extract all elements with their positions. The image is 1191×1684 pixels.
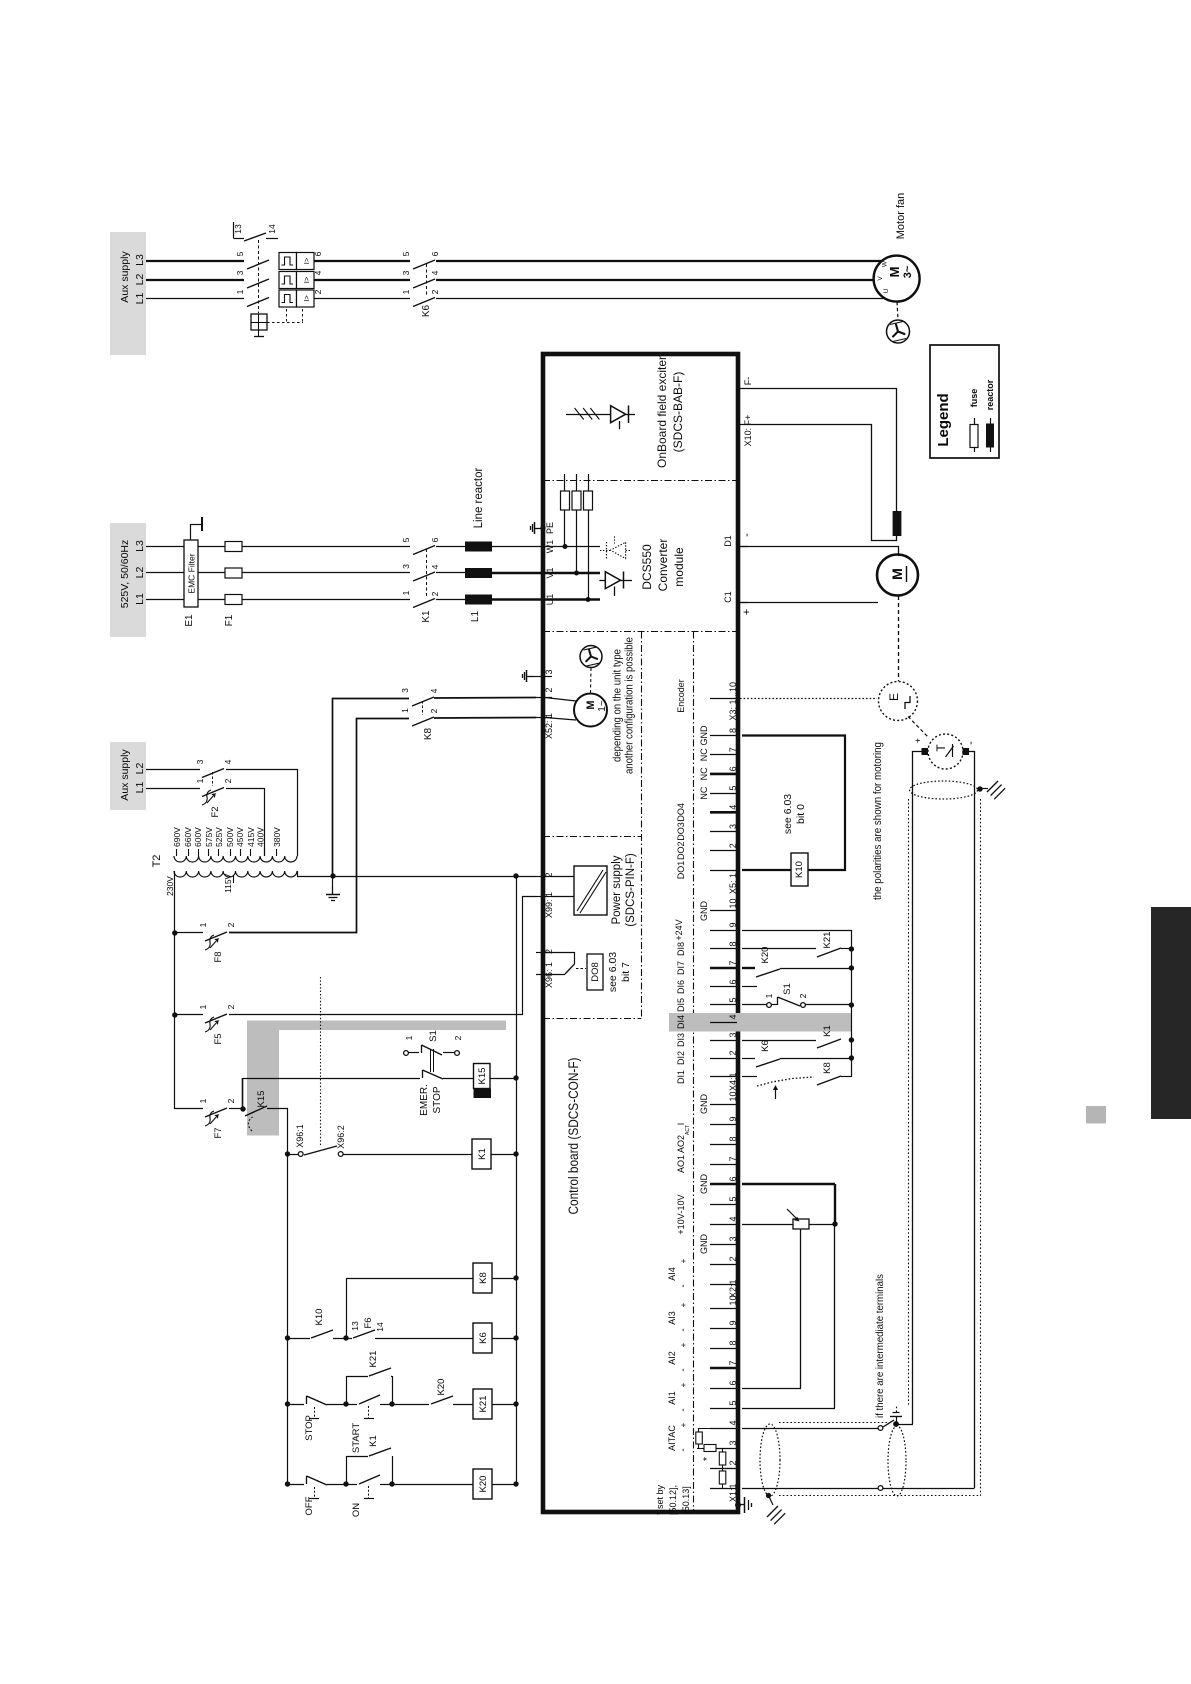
junction dot F7 output (229, 1106, 246, 1111)
PE junction dot on converter edge (540, 525, 545, 530)
wire F2 L1 to 400V tap (226, 789, 265, 857)
svg-text:K6: K6 (760, 1040, 771, 1052)
gray highlight estop horizontal (247, 1021, 506, 1031)
svg-text:(SDCS-BAB-F): (SDCS-BAB-F) (671, 372, 685, 453)
wires EMC to F1 (198, 547, 225, 600)
K8 pole link dashed (422, 701, 424, 715)
svg-text:X52: 1: X52: 1 (544, 713, 554, 739)
svg-text:3: 3 (401, 564, 411, 569)
fuse switch F2 symbol+label (202, 790, 211, 805)
svg-text:7: 7 (728, 960, 738, 965)
F7 symbol+label (205, 1111, 214, 1126)
junction dot after STOP (343, 1401, 348, 1406)
fuse switch F2 pole L2 (202, 769, 224, 778)
wire DI6 stub (742, 986, 757, 988)
fan shaft dashed (897, 302, 898, 320)
svg-text:3~: 3~ (902, 265, 914, 278)
contactor K6 pole L3 (413, 260, 435, 269)
svg-text:I>: I> (302, 257, 311, 264)
svg-text:START: START (351, 1423, 362, 1453)
svg-text:K10: K10 (314, 1309, 325, 1326)
wire X1:4 AITAC+ external (742, 1428, 878, 1430)
tacho - wire down (969, 752, 975, 1489)
contactor K1 pole L2 (413, 572, 435, 581)
svg-text:3: 3 (401, 270, 411, 275)
gray highlight DI4 row (669, 1013, 851, 1032)
X4 pin number labels (728, 898, 738, 1091)
relay K1 coil (472, 1139, 491, 1169)
dotted link DO8 to external contact (320, 977, 322, 1147)
wire GND down to AI1- (742, 1224, 835, 1409)
svg-text:I: I (676, 1123, 686, 1126)
riser 0V to K8 (333, 699, 410, 877)
contactor K8 pole 1-2 (412, 717, 434, 726)
wire L3 breaker to K6 (314, 260, 410, 262)
wire aux L3 to breaker (146, 260, 244, 262)
svg-text:2: 2 (453, 1035, 463, 1040)
svg-text:+: + (741, 609, 753, 615)
K6 pin labels (401, 251, 440, 294)
svg-text:AI3: AI3 (667, 1311, 677, 1325)
wire mains L1 to EMC (146, 599, 184, 601)
wire K1 coil to rail (491, 1154, 516, 1156)
tacho + wire down (913, 752, 922, 1425)
svg-text:see 6.03: see 6.03 (782, 794, 794, 834)
svg-text:6: 6 (728, 1380, 738, 1385)
svg-text:DI8: DI8 (676, 942, 686, 956)
svg-text:6: 6 (728, 979, 738, 984)
svg-text:M: M (889, 568, 905, 580)
svg-text:I>: I> (302, 276, 311, 283)
svg-text:PE: PE (545, 522, 555, 534)
svg-text:1: 1 (235, 289, 245, 294)
svg-text:DCS550: DCS550 (640, 544, 654, 590)
pushbutton OFF (288, 1476, 345, 1499)
junction DI5 rail (849, 1002, 854, 1007)
svg-text:14: 14 (267, 224, 277, 234)
svg-text:F5: F5 (213, 1033, 224, 1044)
labels U1 V1 W1 PE (545, 522, 555, 605)
svg-text:L2: L2 (134, 274, 146, 286)
svg-text:DI4: DI4 (676, 1015, 686, 1029)
fuse F1 L1 (225, 595, 242, 605)
gray band Aux supply (top) (110, 232, 146, 355)
riser to emergency stop chain (242, 1078, 244, 1109)
fan impeller symbol (887, 320, 910, 343)
svg-text:-: - (965, 741, 977, 745)
svg-text:10: 10 (728, 1091, 738, 1101)
svg-text:EMC Filter: EMC Filter (187, 553, 197, 593)
svg-text:600V: 600V (193, 827, 203, 847)
Legend box (930, 345, 999, 458)
K8 pin labels (400, 688, 439, 714)
wire DI1 row (742, 1076, 757, 1078)
svg-text:AI2: AI2 (667, 1351, 677, 1365)
terminal block X4 ticks (710, 911, 737, 1077)
transformer T2 primary winding (174, 856, 297, 862)
svg-text:E: E (887, 693, 901, 701)
svg-text:S1: S1 (782, 983, 793, 995)
wire K15 contact to X96:1 (267, 1109, 288, 1155)
svg-text:C1: C1 (723, 591, 733, 603)
junction dot fuse-V1 (574, 571, 579, 576)
svg-text:415V: 415V (246, 827, 256, 847)
svg-text:DO1: DO1 (676, 861, 686, 880)
contactor K1 pole L3 (413, 546, 435, 555)
svg-text:bit 7: bit 7 (620, 962, 632, 982)
svg-text:DI5: DI5 (676, 998, 686, 1012)
svg-text:525V, 50/60Hz: 525V, 50/60Hz (119, 540, 131, 609)
wire K8 to X52:1 (434, 717, 536, 720)
black page marker bar (1151, 907, 1191, 1119)
svg-text:-: - (678, 1448, 689, 1451)
svg-text:(SDCS-PIN-F): (SDCS-PIN-F) (625, 853, 637, 927)
svg-text:2: 2 (544, 687, 554, 692)
wire F6 to K6 coil (375, 1338, 473, 1340)
terminal X52 ticks (536, 677, 552, 718)
contactor K6 pole L1 (413, 298, 435, 307)
contact K20 in K21 chain (392, 1396, 473, 1405)
svg-text:7: 7 (728, 1360, 738, 1365)
svg-text:Power supply: Power supply (611, 855, 623, 924)
labels X52 pins (544, 669, 554, 739)
svg-text:+: + (679, 1422, 688, 1427)
junction dot K21 rail (513, 1401, 518, 1406)
fuse switch F5 (175, 1004, 236, 1023)
svg-text:6: 6 (430, 251, 440, 256)
fuse switch F7 (175, 1098, 236, 1117)
svg-text:L1: L1 (470, 611, 481, 623)
label L1 L2 L3 mains (134, 540, 146, 605)
gray band Aux supply (middle) (110, 742, 146, 810)
section divider DO8 bottom (543, 1018, 641, 1020)
svg-text:4: 4 (223, 759, 233, 764)
svg-text:NC: NC (699, 748, 709, 761)
wires F1 to K1 (242, 547, 410, 600)
X1 signal names (667, 1302, 689, 1451)
self-hold contact K21 (346, 1368, 393, 1404)
wire DI8 row (742, 948, 816, 950)
svg-text:+: + (679, 1342, 688, 1347)
fuse F1 L2 (225, 568, 242, 578)
breaker F6 pole L3 (247, 260, 269, 269)
converter thyristor symbol dashed (reversing) (600, 536, 630, 558)
svg-text:I>: I> (302, 295, 311, 302)
svg-text:NC: NC (699, 786, 709, 799)
svg-text:F8: F8 (213, 951, 224, 962)
svg-text:5: 5 (728, 1196, 738, 1201)
relay K21 coil (473, 1389, 492, 1419)
field winding reactor (893, 511, 902, 536)
pushbutton ON (346, 1475, 390, 1499)
wire +10V to potentiometer (742, 1224, 793, 1226)
svg-text:K8: K8 (822, 1062, 833, 1074)
internal fan M 1~ (545, 694, 608, 727)
junction dot fuse-W1 (563, 544, 568, 549)
junction dot K6 chain left (285, 1335, 290, 1340)
svg-text:Converter: Converter (656, 539, 670, 592)
wire K20 coil to rail (492, 1484, 516, 1486)
power supply converter box (552, 866, 607, 915)
svg-text:3: 3 (235, 270, 245, 275)
wire X96:2 to K1 coil (343, 1154, 472, 1156)
X2 pin number labels (728, 1091, 738, 1298)
svg-text:another configuration is possi: another configuration is possible (624, 637, 636, 774)
svg-text:K6: K6 (421, 304, 432, 317)
svg-text:K1: K1 (477, 1148, 488, 1160)
svg-text:DI2: DI2 (676, 1051, 686, 1065)
svg-text:STOP: STOP (432, 1086, 443, 1113)
label set by 50.12 50.13 (655, 1484, 691, 1515)
svg-text:F7: F7 (213, 1127, 224, 1138)
svg-text:NC: NC (699, 767, 709, 780)
svg-text:3: 3 (728, 1236, 738, 1241)
svg-text:AI4: AI4 (667, 1267, 677, 1281)
contact K20 to DI7 (756, 969, 780, 977)
svg-text:1: 1 (401, 590, 411, 595)
svg-text:2: 2 (728, 1256, 738, 1261)
svg-text:GND: GND (699, 901, 709, 922)
fuse F1 L3 (225, 542, 242, 552)
svg-text:8: 8 (728, 728, 738, 733)
internal fan shaft dashed (590, 668, 593, 693)
svg-text:X5: 1: X5: 1 (728, 873, 738, 894)
labels X10: F+ and F- (743, 377, 753, 447)
K6 pole linkage dashed (426, 264, 428, 296)
svg-text:5: 5 (401, 537, 411, 542)
svg-text:4: 4 (430, 270, 440, 275)
labels X99 pins (544, 872, 554, 918)
svg-text:bit 0: bit 0 (795, 804, 807, 824)
labels X96 pins (544, 949, 554, 988)
fuse switch F8 (175, 922, 236, 941)
wire K21 coil to rail (492, 1404, 516, 1406)
pushbutton STOP (288, 1396, 345, 1419)
wire pot wiper to AI1+ (742, 1229, 801, 1389)
svg-text:2: 2 (429, 708, 439, 713)
T2 secondary left end to 230V rail (174, 871, 176, 876)
coil return rail (516, 876, 518, 1484)
wire D1 to motor (739, 547, 899, 557)
transformer earth (326, 876, 340, 901)
svg-text:X96:1: X96:1 (295, 1124, 305, 1148)
tacho T circle dotted (928, 734, 963, 769)
svg-text:2: 2 (544, 949, 554, 954)
junction DI2 rail (849, 1055, 854, 1060)
wire K8 coil feed (347, 1279, 474, 1339)
svg-text:9: 9 (728, 1116, 738, 1121)
contactor K6 pole L2 (413, 279, 435, 288)
label depending on the unit type (612, 637, 636, 774)
svg-text:F-: F- (743, 377, 753, 386)
svg-text:2: 2 (226, 922, 236, 927)
internal fuse V1 branch (572, 474, 581, 573)
DO8 coil box (587, 954, 603, 990)
motor shaft dashed to encoder (898, 596, 900, 681)
label DCS550 Converter module (640, 539, 686, 592)
svg-text:L3: L3 (134, 540, 146, 552)
svg-text:DO2: DO2 (676, 841, 686, 860)
wire to K10 contact (288, 1338, 311, 1340)
svg-text:K1: K1 (421, 610, 432, 623)
wire K8 coil to rail (492, 1278, 516, 1280)
svg-text:+24V: +24V (674, 919, 684, 940)
svg-text:DO4: DO4 (676, 803, 686, 822)
svg-text:2: 2 (728, 1050, 738, 1055)
svg-text:5: 5 (235, 251, 245, 256)
svg-text:L1: L1 (134, 593, 146, 605)
DO8 relay contact internal (545, 952, 586, 975)
junction dot STOP chain (285, 1401, 290, 1406)
svg-text:14: 14 (375, 1322, 385, 1332)
svg-text:3: 3 (400, 688, 410, 693)
wire C1 to motor (739, 602, 878, 604)
svg-text:1: 1 (404, 1035, 414, 1040)
svg-text:X99: 1: X99: 1 (544, 892, 554, 918)
svg-text:X96:2: X96:2 (336, 1125, 346, 1149)
wire S1 to rail (805, 1004, 851, 1006)
svg-text:OnBoard field exciter: OnBoard field exciter (655, 356, 669, 468)
legend reactor symbol (986, 418, 994, 452)
labels D1 C1 + - (723, 533, 753, 615)
svg-text:230V: 230V (165, 876, 175, 896)
svg-text:7: 7 (728, 747, 738, 752)
junction dot F5 (172, 1012, 177, 1017)
self-hold contact K1 (346, 1448, 393, 1484)
terminal block X5 ticks (710, 736, 737, 871)
wire aux2 L1 to F2 (146, 788, 200, 790)
wire V1 reactor to converter (492, 572, 543, 574)
svg-text:660V: 660V (183, 827, 193, 847)
label Power supply (SDCS-PIN-F) (611, 853, 637, 927)
svg-text:D1: D1 (723, 535, 733, 547)
internal fuse W1 branch (561, 474, 570, 547)
S1 emergency stop pole 2 (423, 1070, 474, 1079)
svg-text:AI1: AI1 (667, 1391, 677, 1405)
wire L2 breaker to K6 (314, 279, 410, 281)
svg-text:DI7: DI7 (676, 961, 686, 975)
relay K20 coil (473, 1469, 492, 1499)
svg-text:3: 3 (544, 669, 554, 674)
svg-text:X2:1: X2:1 (728, 1279, 738, 1298)
svg-text:+10V: +10V (676, 1213, 686, 1234)
terminal circle X96:1 (290, 1152, 303, 1157)
contact K10 (311, 1330, 333, 1338)
svg-text:2: 2 (728, 1460, 738, 1465)
wire aux L1 to breaker (146, 298, 244, 300)
svg-text:690V: 690V (172, 827, 182, 847)
legend fuse symbol (970, 418, 978, 452)
relay K10 coil loop DO1-GND (742, 736, 845, 871)
S1 pin labels (404, 1030, 463, 1042)
svg-text:Motor fan: Motor fan (895, 193, 907, 239)
wire K8 to X52:2 (434, 697, 536, 700)
svg-text:6: 6 (430, 537, 440, 542)
junction dot K6 rail (513, 1335, 518, 1340)
terminal X96 ticks (536, 953, 552, 975)
junction dot after OFF (343, 1481, 348, 1486)
svg-text:W: W (882, 260, 889, 267)
wire F2 L2 to transformer end (226, 770, 298, 857)
svg-text:-: - (678, 1284, 689, 1287)
shaft dashed E to T (908, 717, 929, 739)
svg-text:K21: K21 (478, 1396, 489, 1413)
screen entry chassis ground (767, 1496, 785, 1525)
screen junction dot (977, 786, 982, 791)
K1 pole linkage dashed (426, 549, 428, 597)
svg-text:6: 6 (728, 766, 738, 771)
wire F8 to K8 (229, 719, 409, 933)
S1 mechanical link (431, 1049, 434, 1072)
svg-text:the polarities are shown for m: the polarities are shown for motoring (872, 742, 884, 900)
switch S1 contact to DI5 (767, 997, 806, 1007)
label L1 L2 aux middle (134, 763, 146, 794)
svg-text:1: 1 (400, 708, 410, 713)
X1:1 corner earth (738, 1497, 752, 1513)
wire U1 reactor to converter (492, 598, 543, 600)
wire DI7 to rail (780, 968, 851, 970)
T2 primary tap ticks (177, 849, 277, 856)
intermediate terminal circle X1:1 (878, 1486, 883, 1491)
junction dot K1 rail (513, 1151, 518, 1156)
svg-text:1: 1 (198, 922, 208, 927)
svg-text:M: M (585, 700, 597, 709)
wire to K20 coil (392, 1484, 473, 1486)
wire F5 to X99:1 (229, 897, 536, 1015)
screen entry junction dot (766, 1493, 771, 1498)
svg-text:AO2: AO2 (676, 1135, 686, 1153)
encoder cable dotted (740, 698, 877, 700)
wire DI2 to rail (780, 1058, 851, 1060)
svg-text:4: 4 (728, 1014, 738, 1019)
airflow arrow (773, 1085, 778, 1099)
svg-text:K20: K20 (478, 1476, 489, 1493)
svg-text:K21: K21 (822, 932, 833, 949)
X1 pin number labels (728, 1295, 738, 1502)
line reactor L1 phase L2 (465, 568, 492, 578)
section divider fan/power supply (543, 836, 641, 838)
motor fan M 3~ (874, 256, 920, 302)
screen bond contact (883, 1420, 913, 1427)
svg-text:2: 2 (226, 1098, 236, 1103)
svg-text:Legend: Legend (935, 393, 952, 446)
svg-text:K15: K15 (256, 1091, 267, 1108)
svg-text:10: 10 (728, 1295, 738, 1305)
line reactor L1 phase L3 (465, 542, 492, 552)
svg-text:1: 1 (401, 289, 411, 294)
wire K8 to rail end (841, 1076, 851, 1078)
svg-text:L2: L2 (134, 763, 146, 775)
wire W1 reactor to converter (492, 546, 543, 548)
contact K8 to DI1 (817, 1076, 841, 1085)
svg-text:X10: F+: X10: F+ (743, 415, 753, 447)
junction dot after ON (389, 1481, 394, 1486)
svg-text:6: 6 (728, 1176, 738, 1181)
svg-text:DI1: DI1 (676, 1070, 686, 1084)
screen dotted left run (908, 799, 910, 1406)
svg-text:9: 9 (728, 1320, 738, 1325)
junction pot GND (832, 1221, 837, 1226)
wires K1 to line reactor (436, 547, 465, 600)
tacho terminal - square (963, 748, 970, 755)
relay K8 coil (473, 1263, 492, 1293)
svg-text:+: + (679, 1258, 688, 1263)
junction dot OFF chain (285, 1481, 290, 1486)
wire X1:1 external (742, 1488, 878, 1490)
screen ellipse at intermediate terminals (888, 1426, 906, 1496)
wire K15 coil to rail (490, 1078, 516, 1080)
wire F+ to field winding (739, 425, 897, 541)
